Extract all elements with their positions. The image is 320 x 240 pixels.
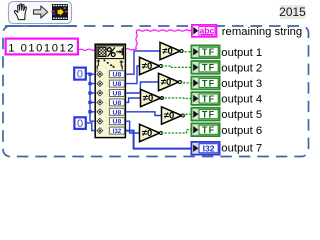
- svg-text:2015: 2015: [279, 5, 306, 19]
- svg-text:U8: U8: [113, 81, 122, 88]
- svg-text:output 1: output 1: [221, 47, 262, 59]
- svg-text:TF: TF: [202, 94, 215, 104]
- svg-text:1 0101012: 1 0101012: [8, 43, 75, 55]
- svg-text:output 3: output 3: [221, 78, 262, 90]
- svg-text:remaining string: remaining string: [222, 26, 302, 38]
- svg-text:I32: I32: [113, 128, 122, 135]
- svg-text:U8: U8: [113, 72, 122, 79]
- svg-text:TF: TF: [202, 47, 215, 57]
- svg-text:≠0: ≠0: [142, 128, 153, 139]
- svg-text:≠0: ≠0: [164, 111, 175, 122]
- svg-text:≠0: ≠0: [143, 93, 154, 104]
- svg-text:TF: TF: [202, 110, 215, 120]
- svg-text:0: 0: [77, 69, 83, 81]
- svg-text:I32: I32: [203, 143, 215, 153]
- svg-text:TF: TF: [202, 63, 215, 73]
- svg-text:output 5: output 5: [221, 109, 262, 121]
- svg-text:≠0: ≠0: [161, 77, 172, 88]
- svg-text:U8: U8: [113, 100, 122, 107]
- svg-text:output 6: output 6: [221, 125, 262, 137]
- svg-text:≠0: ≠0: [162, 46, 173, 57]
- svg-text:≠0: ≠0: [142, 61, 153, 72]
- svg-text:output 2: output 2: [221, 62, 262, 74]
- svg-text:TF: TF: [202, 78, 215, 88]
- svg-text:U8: U8: [113, 109, 122, 116]
- svg-text:output 4: output 4: [221, 94, 262, 106]
- svg-text:output 7: output 7: [221, 143, 262, 155]
- svg-text:U8: U8: [113, 91, 122, 98]
- svg-text:U8: U8: [113, 119, 122, 126]
- svg-text:0: 0: [77, 118, 83, 130]
- svg-text:!: !: [96, 64, 99, 74]
- svg-text:TF: TF: [202, 125, 215, 135]
